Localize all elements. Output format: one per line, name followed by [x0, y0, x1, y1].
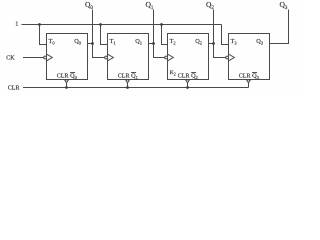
- wire CLR stub stage3: [248, 83, 250, 88]
- junction dot CLR stage0: [65, 86, 68, 89]
- clock bubble U0: [44, 56, 47, 59]
- wire Q1 to clock of stage2: [154, 44, 165, 58]
- svg-text:CLR: CLR: [118, 74, 130, 80]
- overbar of Qbar0: [70, 72, 75, 74]
- CLR bus: [23, 87, 249, 89]
- wire Q2 riser to top: [213, 10, 215, 44]
- wire CLR stub stage0: [66, 83, 68, 88]
- flip-flop U2 box: [168, 34, 209, 80]
- wire CLR stub stage2: [187, 83, 189, 88]
- junction dot node Q0: [91, 42, 94, 45]
- wire Q0 riser to top: [92, 10, 94, 44]
- svg-text:CK: CK: [6, 55, 15, 61]
- svg-text:CLR: CLR: [8, 86, 20, 92]
- clock bubble U1: [105, 56, 108, 59]
- clock bubble U3: [226, 56, 229, 59]
- wire T-drop stage3: [222, 25, 229, 45]
- clock wedge U0: [47, 54, 53, 61]
- junction dot T2 feed: [160, 23, 163, 26]
- overbar of Qbar2: [191, 72, 196, 74]
- wire Q2 output to node: [209, 43, 214, 45]
- clock wedge U3: [229, 54, 235, 61]
- junction dot T0 feed: [38, 23, 41, 26]
- clock wedge U1: [108, 54, 114, 61]
- svg-text:CLR: CLR: [57, 74, 69, 80]
- logic-1 supply line: [22, 24, 222, 26]
- CK input wire: [23, 57, 44, 59]
- clock bubble U2: [165, 56, 168, 59]
- CLR triangle stage1: [126, 80, 130, 83]
- wire Q0 output to node: [88, 43, 93, 45]
- CLR triangle stage2: [186, 80, 190, 83]
- junction dot node Q1: [152, 42, 155, 45]
- flip-flop U1 box: [108, 34, 149, 80]
- junction dot node Q2: [212, 42, 215, 45]
- junction dot CLR stage2: [186, 86, 189, 89]
- svg-text:CLR: CLR: [178, 74, 190, 80]
- junction dot T1 feed: [99, 23, 102, 26]
- wire Q0 to clock of stage1: [93, 44, 105, 58]
- flip-flop U0 box: [47, 34, 88, 80]
- CLR triangle stage3: [247, 80, 251, 83]
- wire T-drop stage2: [162, 25, 168, 45]
- flip-flop U3 box: [229, 34, 270, 80]
- wire Q1 riser to top: [153, 10, 155, 44]
- CLR triangle stage0: [65, 80, 69, 83]
- svg-text:CLR: CLR: [239, 74, 251, 80]
- wire CLR stub stage1: [127, 83, 129, 88]
- svg-text:1: 1: [15, 21, 18, 27]
- wire Q2 to clock of stage3: [214, 44, 226, 58]
- wire T-drop stage0: [40, 25, 47, 45]
- wire Q1 output to node: [149, 43, 154, 45]
- wire T-drop stage1: [101, 25, 108, 45]
- junction dot CLR stage1: [126, 86, 129, 89]
- overbar of Qbar1: [131, 72, 136, 74]
- wire Q3 output riser: [270, 10, 289, 44]
- overbar of Qbar3: [252, 72, 257, 74]
- clock wedge U2: [168, 54, 174, 61]
- svg-text:K2: K2: [170, 70, 176, 76]
